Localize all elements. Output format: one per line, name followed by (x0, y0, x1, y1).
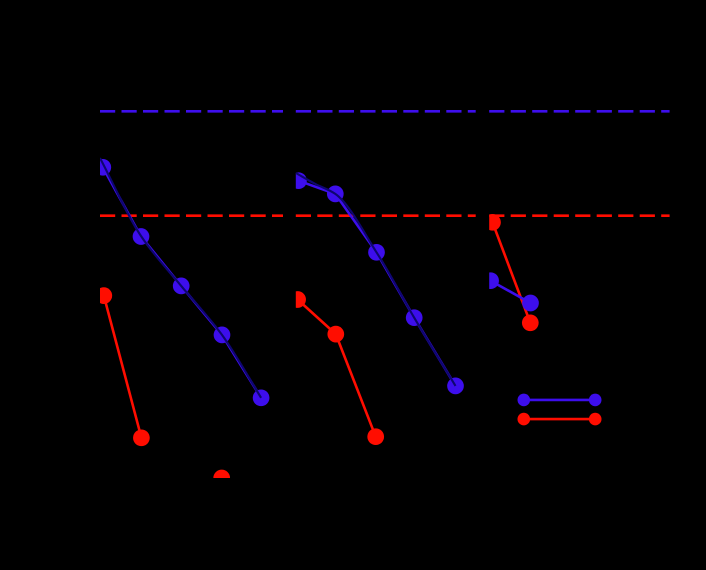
red data series, panel 2 (298, 300, 376, 437)
blue data series, panel 3 (491, 281, 531, 303)
blue dashed threshold line, panel 3 (489, 110, 669, 113)
red data series, panel 1 (104, 296, 142, 438)
legend red entry (524, 418, 595, 421)
red dashed threshold line, panel 1 (100, 214, 283, 217)
red dashed threshold line, panel 2 (296, 214, 476, 217)
dark navy fit curve, panel 2 (296, 173, 456, 386)
red dashed threshold line, panel 3 (489, 214, 669, 217)
blue data series, panel 1 (103, 167, 261, 397)
dark navy fit curve, panel 1 (100, 158, 261, 398)
red data series, panel 3 (493, 222, 531, 322)
blue data series, panel 2 (299, 181, 456, 386)
blue dashed threshold line, panel 2 (296, 110, 476, 113)
red clipped marker at axis bottom, panel 1 (213, 470, 230, 487)
legend blue entry (524, 399, 595, 402)
blue dashed threshold line, panel 1 (100, 110, 283, 113)
